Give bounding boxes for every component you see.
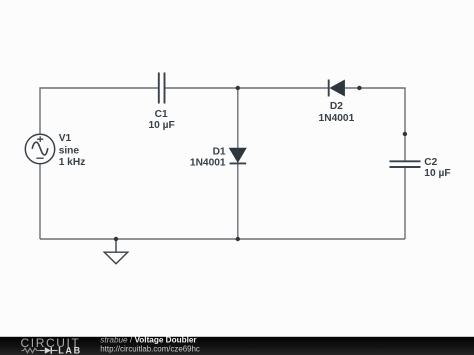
wire D1 branch upper xyxy=(237,88,239,149)
svg-text:C1: C1 xyxy=(155,109,168,120)
svg-text:C2: C2 xyxy=(424,157,437,168)
svg-text:D2: D2 xyxy=(330,101,343,112)
svg-text:10 µF: 10 µF xyxy=(424,168,450,179)
footer bar xyxy=(0,337,474,355)
svg-text:D1: D1 xyxy=(213,147,226,158)
voltage source V1 xyxy=(25,134,54,163)
node dot: bottom rail / D1 branch junction xyxy=(236,237,240,241)
svg-text:LAB: LAB xyxy=(58,346,82,355)
C1 labels xyxy=(148,109,174,131)
wire bottom rail xyxy=(40,238,405,240)
svg-text:V1: V1 xyxy=(59,133,72,144)
wire top rail segment 3 (D2 to top-right corner) xyxy=(344,88,405,161)
capacitor C2 xyxy=(390,161,421,167)
D2 labels xyxy=(319,101,355,124)
svg-text:http://circuitlab.com/cze69hc: http://circuitlab.com/cze69hc xyxy=(100,344,200,353)
diode D1 xyxy=(230,148,247,163)
wire top rail segment 2 (C1 to D2) xyxy=(164,87,328,89)
CircuitLab logo resistor zigzag xyxy=(22,348,41,353)
svg-text:1N4001: 1N4001 xyxy=(190,158,226,169)
ground xyxy=(104,239,127,264)
D1 labels xyxy=(190,147,226,169)
svg-text:sine: sine xyxy=(59,146,80,157)
node dot: bottom rail / ground junction xyxy=(114,237,118,241)
wire top rail segment 1 (V1 to C1) xyxy=(40,88,159,134)
V1 labels xyxy=(59,133,86,168)
node dot: right vertical above C2 xyxy=(403,132,407,136)
diode D2 xyxy=(329,80,345,97)
wire left vertical below V1 xyxy=(39,164,41,239)
C2 labels xyxy=(424,157,450,179)
wire right vertical below C2 xyxy=(404,167,406,239)
node dot: top rail / D1 branch junction xyxy=(236,86,240,90)
capacitor C1 xyxy=(159,73,165,104)
svg-text:1 kHz: 1 kHz xyxy=(59,157,86,168)
wire D1 branch lower xyxy=(237,164,239,240)
svg-text:1N4001: 1N4001 xyxy=(319,113,355,124)
svg-text:strabue / Voltage Doubler: strabue / Voltage Doubler xyxy=(100,335,197,344)
svg-text:10 µF: 10 µF xyxy=(148,120,174,131)
node dot: top rail right of D2 xyxy=(357,86,361,90)
CircuitLab logo diode icon xyxy=(40,347,58,354)
